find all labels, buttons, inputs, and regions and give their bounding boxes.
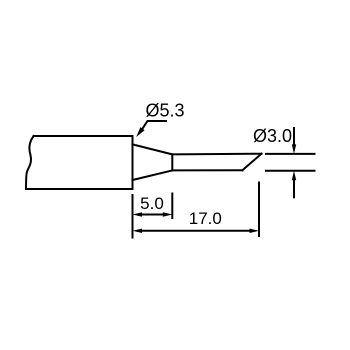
- arrowhead 17.0 right: [250, 229, 260, 233]
- tip bottom edge: [172, 169, 242, 171]
- extension line left (x=132.5): [132, 195, 134, 238]
- arrowhead 5.0 left: [133, 212, 143, 216]
- tip top edge: [172, 153, 261, 156]
- svg-text:17.0: 17.0: [189, 209, 222, 228]
- arrowhead leader 5.3 (points down-left to corner): [136, 127, 144, 137]
- diameter 3.0 upper dim line: [266, 153, 315, 155]
- arrowhead 17.0 left: [133, 229, 143, 233]
- diameter 3.0 lower dim line: [266, 170, 315, 172]
- dim line 5.0: [140, 214, 165, 216]
- arrowhead 3.0 down: [292, 144, 296, 154]
- svg-text:Ø5.3: Ø5.3: [145, 101, 184, 121]
- dim line 17.0: [140, 230, 252, 232]
- arrowhead 3.0 up: [292, 171, 296, 181]
- taper/tip junction vertical: [171, 154, 173, 170]
- cone taper top line: [133, 144, 173, 154]
- body barrel bottom edge: [26, 188, 133, 190]
- arrowhead 5.0 right: [163, 212, 173, 216]
- svg-text:5.0: 5.0: [140, 194, 164, 213]
- body barrel right edge: [132, 136, 134, 189]
- body break line (wavy left edge): [26, 136, 34, 189]
- cone taper bottom line: [133, 170, 173, 180]
- diameter 3.0 lower arrow stem: [293, 178, 295, 197]
- leader line for diameter 5.3: [143, 121, 167, 129]
- extension line right (x=259): [258, 183, 260, 237]
- diameter 3.0 upper arrow stem: [293, 128, 295, 146]
- body barrel top edge: [34, 135, 133, 137]
- extension line middle (x=173): [171, 194, 173, 219]
- svg-text:Ø3.0: Ø3.0: [253, 126, 292, 146]
- tip bevel edge: [242, 154, 261, 171]
